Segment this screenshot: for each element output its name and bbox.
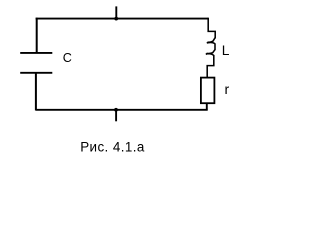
svg-text:r: r [225,81,230,97]
wire bottom rail [36,109,208,111]
node bottom stub wire [115,110,117,122]
node top junction dot [114,17,118,21]
wire top (node A rail) [36,18,209,20]
wire left upper (to capacitor) [36,18,38,54]
svg-text:C: C [63,51,72,65]
capacitor C plates [20,53,52,73]
node bottom junction dot [114,108,118,112]
svg-text:L: L [222,43,230,58]
resistor r (body) [201,78,215,104]
svg-text:Рис. 4.1.а: Рис. 4.1.а [80,140,145,155]
wire resistor bottom lead [206,103,208,110]
wire left lower (capacitor to bottom rail) [35,73,37,111]
node top stub wire [115,6,117,18]
inductor L (coil) [206,18,215,78]
